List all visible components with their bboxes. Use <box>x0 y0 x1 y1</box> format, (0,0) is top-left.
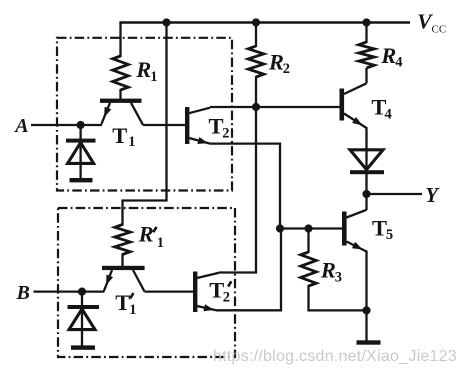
svg-text:1: 1 <box>150 69 157 85</box>
wire T1 collector to T2 base <box>143 124 185 126</box>
svg-text:CC: CC <box>432 24 447 36</box>
wire feed down through cell A to cell B <box>123 23 167 226</box>
node rail-R2 <box>252 18 260 26</box>
resistor R'1 <box>115 225 131 255</box>
node rail feed to cell B <box>162 18 170 26</box>
wire R2 down to collector node <box>255 76 257 107</box>
transistor T4 <box>340 89 345 121</box>
node collector junction <box>252 103 260 111</box>
svg-text:A: A <box>13 115 28 137</box>
svg-text:3: 3 <box>335 270 342 286</box>
wire to output Y <box>367 193 423 195</box>
wire T2 collector <box>189 108 210 114</box>
wire R'1 to T1' base <box>121 254 123 267</box>
svg-text:R: R <box>138 222 154 247</box>
resistor R2 <box>255 23 257 48</box>
wire T4 emitter <box>344 114 367 129</box>
node A-diode junction <box>77 121 85 129</box>
svg-text:4: 4 <box>385 107 392 123</box>
wire T2 emitter <box>189 138 210 144</box>
svg-text:Y: Y <box>425 183 440 207</box>
node phase-splitter emitters junction <box>276 224 284 232</box>
node Y <box>362 190 370 198</box>
ground output <box>357 340 381 344</box>
node T5 emitter / R3 junction <box>362 306 370 314</box>
svg-text:4: 4 <box>395 55 402 71</box>
svg-text:T: T <box>372 215 387 240</box>
node R3 top <box>304 224 312 232</box>
ground B <box>71 345 95 349</box>
wire Vcc rail <box>121 21 411 24</box>
wire T5 collector to Y <box>365 194 367 210</box>
transistor T5 <box>342 212 347 246</box>
svg-text:2: 2 <box>222 126 229 142</box>
resistor R4 <box>365 23 367 44</box>
diode DB input clamp <box>81 292 83 346</box>
svg-text:T: T <box>115 290 130 315</box>
dash-dot box input cell B <box>58 208 235 357</box>
resistor R3 <box>307 229 309 254</box>
wire T2' emitter <box>197 306 216 310</box>
wire to ground <box>365 310 367 341</box>
transistor T1' <box>102 266 145 270</box>
diode D output level shift <box>365 127 367 194</box>
node B-diode junction <box>78 288 86 296</box>
svg-text:1: 1 <box>157 235 164 251</box>
ground A <box>70 178 93 182</box>
wire collector node down to T2' collector <box>219 107 256 273</box>
wire R3 bottom to emitter node <box>309 285 367 310</box>
transistor T1 <box>100 99 142 103</box>
svg-text:1: 1 <box>128 134 135 150</box>
svg-text:https://blog.csdn.net/Xiao_Jie: https://blog.csdn.net/Xiao_Jie123 <box>213 348 457 365</box>
svg-text:R: R <box>268 49 284 74</box>
wire T4 collector to R4 <box>344 83 367 94</box>
svg-text:T: T <box>112 123 127 148</box>
resistor R1 <box>113 56 129 90</box>
wire T1' collector to T2' base <box>145 290 194 292</box>
wire T2' collector <box>197 273 219 278</box>
dash-dot box input cell A <box>57 38 232 191</box>
wire R1 to T1 base <box>119 89 121 100</box>
transistor T2 <box>185 107 189 144</box>
node rail-R4 <box>362 18 370 26</box>
svg-text:T: T <box>209 114 224 139</box>
svg-text:R: R <box>320 258 336 283</box>
wire input B line <box>34 290 105 292</box>
wire T5 emitter <box>347 242 367 252</box>
svg-text:2: 2 <box>223 290 230 306</box>
svg-text:5: 5 <box>386 227 393 243</box>
diode DA input clamp <box>79 125 81 179</box>
svg-text:R: R <box>135 57 151 82</box>
svg-text:2: 2 <box>283 61 290 77</box>
transistor T2' <box>193 272 197 313</box>
wire to T5 base <box>280 227 342 229</box>
svg-text:1: 1 <box>129 302 136 318</box>
wire input A line <box>31 124 102 126</box>
wire rail corner down to R1 <box>119 21 121 57</box>
svg-text:R: R <box>380 43 396 68</box>
svg-text:B: B <box>16 282 30 304</box>
